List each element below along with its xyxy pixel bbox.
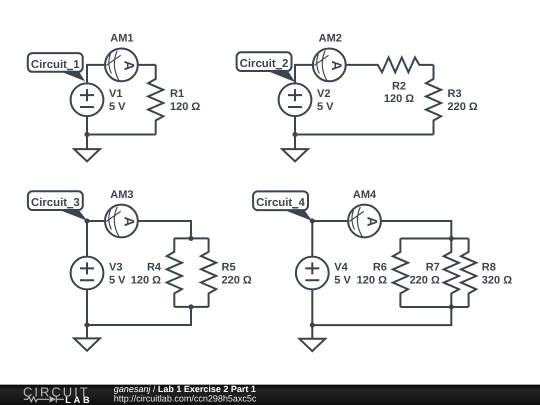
wire: V3 bottom to ground [86, 290, 88, 339]
svg-text:R7: R7 [426, 261, 440, 273]
node: junction dot V4 top [310, 218, 315, 223]
resistor R8 [461, 239, 476, 308]
callout Circuit_2 tail [267, 71, 296, 82]
svg-text:V2: V2 [317, 88, 330, 100]
voltage source V1 [71, 83, 104, 116]
wire: V2 bottom to ground [294, 116, 296, 150]
resistor R7 [444, 239, 459, 308]
ground GND1 [74, 149, 100, 161]
wire: V4 bottom to ground [311, 290, 313, 340]
svg-text:R5: R5 [222, 261, 236, 273]
wire: top bar R4-R5 [174, 237, 208, 239]
voltage source V2 [279, 83, 312, 116]
svg-text:V1: V1 [109, 88, 122, 100]
node: junction dot V3 top [84, 218, 89, 223]
wire: V1 bottom to ground [86, 116, 88, 150]
svg-text:V3: V3 [109, 262, 122, 274]
wire: V4 top to AM4 to parallel bank [312, 221, 451, 257]
svg-text:LAB: LAB [65, 395, 92, 405]
ground GND4 [299, 339, 325, 351]
resistor R1 [148, 65, 163, 135]
voltage source V3 [71, 257, 104, 290]
resistor R3 [426, 65, 441, 135]
node: junction dot at V2 bottom [292, 132, 297, 137]
svg-text:R1: R1 [170, 88, 184, 100]
resistor R5 [201, 238, 216, 307]
wire: V1 top to AM1 to R1 top [87, 65, 156, 83]
svg-text:120 Ω: 120 Ω [170, 101, 200, 113]
callout Circuit_2 box [237, 52, 292, 71]
wire: R3 bottom to V2 bottom [295, 134, 434, 136]
ammeter AM4 [348, 205, 381, 238]
logo wire-resistor-diode glyph [24, 397, 49, 402]
resistor R6 [393, 239, 408, 308]
node: junction dot bank top [188, 236, 193, 241]
svg-text:R3: R3 [448, 88, 462, 100]
svg-text:AM4: AM4 [353, 189, 377, 201]
node: junction dot V4 bottom [310, 323, 315, 328]
svg-text:R4: R4 [147, 261, 162, 273]
wire: bank bottom to V3 bottom [87, 307, 191, 325]
svg-text:AM1: AM1 [110, 33, 133, 45]
svg-text:120 Ω: 120 Ω [357, 275, 387, 287]
svg-text:R2: R2 [392, 80, 406, 92]
callout Circuit_4 tail [284, 210, 313, 221]
svg-text:http://circuitlab.com/ccn298h5: http://circuitlab.com/ccn298h5axc5c [114, 393, 257, 403]
svg-text:R6: R6 [373, 261, 387, 273]
wire: V2 top to AM2 [295, 65, 347, 83]
wire: bank bottom to V4 bottom [312, 307, 451, 325]
svg-text:R8: R8 [482, 261, 496, 273]
svg-text:120 Ω: 120 Ω [384, 93, 414, 105]
ammeter AM3 [105, 205, 138, 238]
node: junction dot bank bottom [188, 304, 193, 309]
wire: V3 top to AM3 to parallel bank [87, 221, 191, 257]
ammeter AM1 [105, 49, 138, 82]
node: junction dot V3 bottom [84, 322, 89, 327]
svg-text:5 V: 5 V [109, 101, 126, 113]
svg-text:AM3: AM3 [110, 189, 133, 201]
resistor R2 (horizontal) [347, 58, 434, 73]
callout Circuit_3 tail [59, 210, 88, 221]
ground GND2 [282, 149, 308, 161]
svg-text:5 V: 5 V [334, 275, 351, 287]
callout Circuit_4 box [253, 191, 308, 210]
svg-text:220 Ω: 220 Ω [448, 101, 478, 113]
resistor R4 [167, 238, 182, 307]
ammeter AM2 [313, 49, 346, 82]
svg-text:320 Ω: 320 Ω [482, 275, 512, 287]
svg-text:120 Ω: 120 Ω [131, 275, 161, 287]
ground GND3 [74, 338, 100, 350]
svg-text:V4: V4 [334, 262, 348, 274]
svg-text:AM2: AM2 [319, 33, 342, 45]
callout Circuit_1 tail [58, 71, 85, 82]
svg-text:220 Ω: 220 Ω [410, 275, 440, 287]
node: junction dot at V1 bottom net [84, 132, 89, 137]
callout Circuit_3 box [28, 191, 83, 210]
wire: top bar R6-R8 [400, 238, 468, 240]
callout Circuit_1 box [28, 53, 83, 72]
node: junction dot bank top [449, 236, 454, 241]
svg-text:5 V: 5 V [317, 101, 334, 113]
voltage source V4 [296, 257, 329, 290]
node: junction dot bank bottom [449, 304, 454, 309]
svg-text:220 Ω: 220 Ω [222, 275, 252, 287]
wire: R1 bottom to V1 bottom (net) [87, 134, 156, 136]
wire: bottom bar R6-R8 [400, 306, 468, 308]
svg-text:5 V: 5 V [109, 275, 126, 287]
wire: bottom bar R4-R5 [174, 306, 208, 308]
